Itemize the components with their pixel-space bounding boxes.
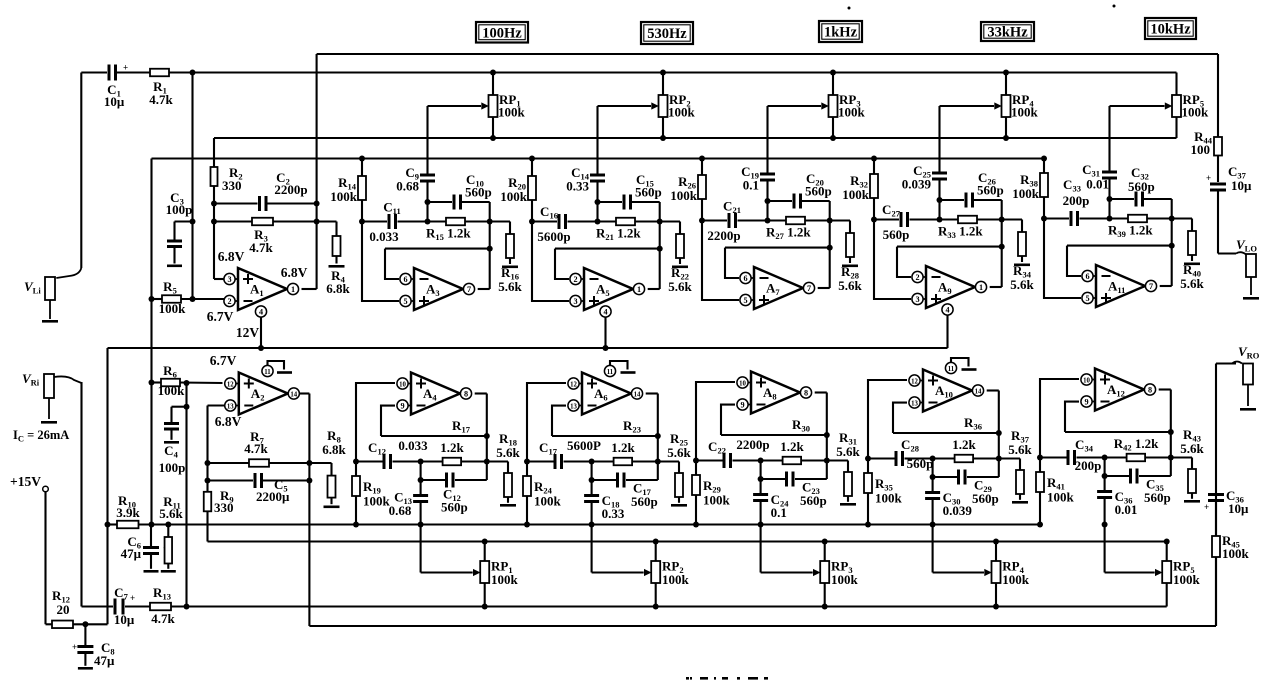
svg-text:100k: 100k (330, 189, 358, 204)
svg-text:C27: C27 (882, 202, 901, 219)
svg-text:47μ: 47μ (121, 546, 142, 561)
svg-text:A3: A3 (426, 282, 440, 299)
op-amp A9 (926, 266, 975, 308)
svg-text:5600p: 5600p (537, 229, 570, 244)
resistor R16 (509, 222, 511, 235)
wire output bus bottom (309, 625, 1216, 627)
svg-text:200p: 200p (1075, 458, 1102, 473)
capacitor C30 to wiper (932, 477, 934, 491)
wire wiper A6 (591, 525, 593, 573)
svg-text:VLi: VLi (24, 279, 41, 296)
svg-text:13: 13 (570, 403, 577, 410)
svg-text:R33 1.2k: R33 1.2k (938, 224, 983, 241)
svg-text:2: 2 (573, 275, 577, 284)
svg-text:12V: 12V (236, 325, 260, 340)
svg-text:R39 1.2k: R39 1.2k (1108, 223, 1153, 240)
resistor R45 (1215, 502, 1217, 536)
capacitor C37 (1210, 183, 1226, 186)
svg-text:3: 3 (573, 297, 577, 306)
svg-text:0.33: 0.33 (566, 179, 589, 194)
svg-text:0.039: 0.039 (943, 503, 973, 518)
ground VLO (1250, 277, 1252, 295)
svg-text:3: 3 (227, 275, 231, 284)
capacitor C10 (428, 201, 453, 203)
svg-text:100p: 100p (159, 460, 186, 475)
svg-text:10μ: 10μ (1228, 501, 1249, 516)
svg-text:A9: A9 (938, 280, 952, 297)
svg-text:12: 12 (911, 378, 918, 385)
svg-text:9: 9 (400, 401, 404, 410)
svg-text:A10: A10 (935, 383, 953, 400)
svg-text:VRO: VRO (1238, 344, 1260, 361)
resistor R3 (214, 220, 252, 222)
capacitor C16 (529, 219, 535, 225)
wire top bus drop (1217, 54, 1219, 137)
caption fragment (686, 677, 689, 680)
svg-text:C22: C22 (708, 439, 726, 456)
svg-text:6.8V: 6.8V (281, 265, 308, 280)
wire VRi lead (80, 382, 82, 607)
svg-text:1.2k: 1.2k (952, 437, 976, 452)
wire wiper A8 (760, 525, 762, 573)
svg-text:C33: C33 (1063, 177, 1081, 194)
svg-text:200p: 200p (1063, 193, 1090, 208)
svg-text:13: 13 (227, 403, 234, 410)
svg-text:100k: 100k (1047, 490, 1075, 505)
wire feedback A5 (555, 248, 660, 250)
svg-text:560p: 560p (465, 185, 492, 200)
svg-text:560p: 560p (800, 493, 827, 508)
capacitor C33 (1041, 216, 1047, 222)
svg-text:2200p: 2200p (736, 437, 769, 452)
capacitor C25 (932, 172, 947, 175)
svg-text:C4: C4 (164, 443, 178, 460)
svg-text:100k: 100k (1012, 186, 1040, 201)
wire input A12 (1040, 379, 1079, 458)
node sum A3 (425, 199, 431, 205)
wire input A6 (527, 383, 566, 462)
wire bottom bus riser (1215, 364, 1217, 627)
potentiometer RP1 bottom (484, 542, 486, 562)
capacitor C34 series (1037, 455, 1043, 461)
resistor R22 (679, 222, 681, 235)
resistor R28 (849, 221, 851, 234)
svg-text:560p: 560p (805, 184, 832, 199)
svg-text:6.8V: 6.8V (215, 414, 242, 429)
potentiometer RP5 top (1175, 73, 1177, 96)
capacitor C12 series (353, 459, 359, 465)
svg-text:R42 1.2k: R42 1.2k (1114, 436, 1159, 453)
capacitor C19 (760, 173, 775, 176)
svg-text:C12: C12 (368, 440, 386, 457)
potentiometer RP5 bottom (1166, 542, 1168, 562)
wire wiper A12 (1104, 525, 1106, 573)
wire input rail bottom (125, 605, 150, 607)
pin 4 A5 (600, 306, 611, 317)
svg-text:100k: 100k (363, 494, 391, 509)
svg-text:3: 3 (915, 295, 919, 304)
svg-text:5: 5 (1085, 294, 1089, 303)
capacitor C28 series (865, 456, 871, 462)
svg-text:1: 1 (979, 283, 983, 292)
svg-text:100k: 100k (500, 189, 528, 204)
op-amp A3 (414, 268, 463, 310)
potentiometer RP3 bottom (824, 542, 826, 562)
resistor R24 (526, 462, 528, 477)
resistor R33 (958, 216, 977, 224)
svg-text:100k: 100k (534, 494, 562, 509)
resistor R26 (701, 159, 703, 176)
svg-text:100k: 100k (831, 572, 859, 587)
wire to VLO (1218, 252, 1236, 254)
svg-text:100k: 100k (1173, 572, 1201, 587)
node N1 (190, 70, 196, 76)
wire A1 output (302, 288, 317, 290)
wire feedback A10 (893, 432, 999, 434)
potentiometer RP3 top (832, 73, 834, 96)
op-amp A12 (1095, 369, 1144, 411)
svg-text:5.6k: 5.6k (496, 445, 520, 460)
node VLi input wire (81, 71, 107, 73)
speck marks (848, 7, 851, 10)
wire output A9 (990, 286, 1002, 288)
svg-text:0.01: 0.01 (1115, 502, 1138, 517)
svg-text:5.6k: 5.6k (836, 444, 860, 459)
resistor R34 (1021, 220, 1023, 233)
capacitor C36 (1208, 493, 1224, 496)
svg-text:R36: R36 (964, 415, 982, 432)
svg-text:4: 4 (945, 305, 949, 314)
capacitor C1 (108, 65, 111, 81)
svg-text:C17: C17 (539, 440, 558, 457)
wire supply riser (106, 348, 108, 624)
capacitor C18 to wiper (591, 480, 593, 494)
resistor R9 (204, 492, 212, 512)
node sum A5 (595, 199, 601, 205)
svg-text:A12: A12 (1107, 382, 1125, 399)
capacitor C15 (598, 201, 623, 203)
resistor R21 (616, 218, 635, 226)
svg-text:20: 20 (57, 602, 70, 617)
wire output A6 (646, 392, 658, 394)
svg-text:10: 10 (739, 380, 746, 387)
svg-text:C11: C11 (383, 200, 400, 217)
svg-text:8: 8 (464, 389, 468, 398)
capacitor C24 to wiper (760, 479, 762, 493)
wire output bus top (317, 53, 1218, 55)
wire to pin3 (214, 278, 226, 280)
wire A2 feedback (208, 404, 225, 406)
resistor R43 (1191, 458, 1193, 470)
wire output A12 (1159, 388, 1171, 390)
wire (169, 71, 193, 73)
svg-text:100k: 100k (498, 105, 526, 120)
svg-text:11: 11 (948, 366, 955, 373)
wire output A5 (648, 288, 660, 290)
wire feedback A12 (1065, 431, 1171, 433)
wire (117, 71, 150, 73)
svg-text:R13: R13 (153, 585, 171, 602)
svg-text:R5: R5 (163, 279, 177, 296)
svg-text:7: 7 (807, 284, 811, 293)
svg-text:10kHz: 10kHz (1150, 22, 1191, 38)
svg-text:100k: 100k (703, 493, 731, 508)
svg-text:4.7k: 4.7k (149, 92, 173, 107)
svg-text:4.7k: 4.7k (244, 441, 268, 456)
resistor 1.2k A8 (783, 457, 802, 465)
pin 11 A2 (262, 365, 273, 376)
svg-text:0.33: 0.33 (602, 506, 625, 521)
pin 4 A9 (942, 304, 953, 315)
resistor R7 (208, 462, 250, 464)
svg-text:IC = 26mA: IC = 26mA (13, 428, 69, 444)
svg-text:100k: 100k (158, 383, 186, 398)
svg-text:5600P: 5600P (567, 438, 601, 453)
svg-text:10μ: 10μ (1231, 178, 1252, 193)
resistor R15 (446, 218, 465, 226)
capacitor C27 (871, 217, 877, 223)
svg-text:VRi: VRi (22, 371, 40, 388)
svg-text:6: 6 (1085, 272, 1089, 281)
capacitor C8 (84, 624, 86, 645)
pin 11 A6 (604, 365, 615, 376)
capacitor C21 (699, 218, 705, 224)
svg-text:560p: 560p (635, 185, 662, 200)
svg-text:10: 10 (1083, 377, 1090, 384)
svg-text:100k: 100k (1222, 546, 1250, 561)
wire output A11 (1160, 285, 1172, 287)
op-amp A5 (584, 268, 633, 310)
resistor R32 (873, 159, 875, 175)
capacitor C17 series (524, 459, 530, 465)
resistor R11 (165, 522, 171, 528)
wire input A11 (1044, 219, 1081, 299)
wire feedback A8 (721, 434, 827, 436)
capacitor C17 feedback (591, 462, 593, 481)
svg-text:560p: 560p (441, 500, 468, 515)
resistor R40 (1191, 219, 1193, 232)
svg-text:2200p: 2200p (274, 182, 307, 197)
svg-text:C21: C21 (723, 199, 741, 216)
svg-text:+: + (1206, 173, 1211, 183)
op-amp A8 (751, 372, 800, 414)
op-amp A7 (754, 267, 803, 309)
resistor R29 (695, 461, 697, 476)
capacitor C29 feedback (932, 459, 934, 478)
wire wiper drop band 4 (938, 106, 940, 172)
svg-text:100k: 100k (1011, 105, 1039, 120)
wire pot top rail bottom (208, 540, 1167, 542)
wire feedback A4 (381, 435, 487, 437)
resistor R5 (149, 296, 155, 302)
capacitor C13 to wiper (420, 480, 422, 494)
svg-text:6.7V: 6.7V (210, 353, 237, 368)
wire wiper A10 (932, 525, 934, 573)
svg-text:1.2k: 1.2k (440, 440, 464, 455)
resistor R1 (150, 69, 169, 77)
svg-text:R23: R23 (623, 418, 641, 435)
capacitor C23 feedback (760, 461, 762, 480)
resistor 1.2k A12 (1127, 454, 1146, 462)
svg-text:A11: A11 (1108, 279, 1125, 296)
resistor R2 (213, 138, 215, 167)
wire output A3 (478, 288, 490, 290)
resistor R18 (507, 462, 509, 474)
svg-text:560p: 560p (977, 183, 1004, 198)
resistor R39 (1128, 215, 1147, 223)
svg-text:R21 1.2k: R21 1.2k (596, 226, 641, 243)
jack VRi (44, 374, 54, 398)
wire VLi lead (80, 73, 82, 269)
wire wiper drop band 1 (426, 106, 428, 174)
resistor R6 (149, 380, 155, 386)
wire feedback A7 (725, 247, 830, 249)
svg-text:11: 11 (264, 369, 271, 376)
wire RP2 wiper (598, 105, 652, 107)
svg-text:1.2k: 1.2k (611, 440, 635, 455)
svg-text:+: + (123, 63, 128, 73)
resistor R38 (1043, 159, 1045, 174)
node sum A9 (937, 197, 943, 203)
svg-text:4.7k: 4.7k (151, 611, 175, 626)
svg-text:5.6k: 5.6k (668, 279, 692, 294)
wire output A8 (815, 391, 827, 393)
svg-text:0.68: 0.68 (396, 179, 419, 194)
resistor 1.2k A10 (955, 455, 974, 463)
resistor 1.2k A6 (614, 458, 633, 466)
capacitor C14 (590, 174, 605, 177)
svg-text:0.033: 0.033 (369, 229, 399, 244)
svg-text:14: 14 (634, 391, 641, 398)
capacitor C3 (190, 219, 196, 225)
jack VLO (1246, 254, 1256, 277)
svg-text:0.1: 0.1 (743, 178, 759, 193)
svg-text:12: 12 (227, 381, 234, 388)
capacitor C31 (1102, 171, 1117, 174)
svg-text:6.8k: 6.8k (322, 442, 346, 457)
capacitor C4 (184, 404, 190, 410)
capacitor C6 (150, 525, 152, 547)
capacitor C36 to wiper (1104, 476, 1106, 490)
resistor R12 (52, 621, 73, 629)
capacitor C32 (1110, 198, 1135, 200)
capacitor C7 (114, 599, 117, 615)
op-amp A10 (923, 370, 972, 412)
svg-text:14: 14 (975, 388, 982, 395)
svg-text:560p: 560p (972, 491, 999, 506)
label box 10kHz (1145, 18, 1196, 39)
svg-text:2200p: 2200p (707, 228, 740, 243)
svg-text:A2: A2 (251, 386, 265, 403)
svg-text:5.6k: 5.6k (159, 506, 183, 521)
svg-text:33kHz: 33kHz (987, 25, 1028, 41)
label box 530Hz (641, 22, 693, 44)
svg-text:100k: 100k (1182, 105, 1210, 120)
capacitor C35 feedback (1104, 458, 1106, 477)
svg-text:5: 5 (403, 297, 407, 306)
svg-text:5.6k: 5.6k (1010, 277, 1034, 292)
wire bias rail top (152, 157, 1045, 159)
resistor R37 (1019, 459, 1021, 471)
wire input A5 (532, 222, 569, 302)
capacitor C26 (940, 199, 965, 201)
wire bias vertical link (150, 159, 152, 525)
resistor R27 (786, 217, 805, 225)
capacitor C20 (768, 200, 793, 202)
svg-text:5.6k: 5.6k (838, 278, 862, 293)
resistor R19 (355, 462, 357, 477)
capacitor C5 (208, 479, 254, 481)
wire +15V (44, 492, 46, 624)
svg-text:6.7V: 6.7V (207, 309, 234, 324)
pin 11 A10 (945, 362, 956, 373)
label box 33kHz (981, 22, 1034, 41)
resistor R31 (847, 461, 849, 473)
svg-text:100p: 100p (166, 202, 193, 217)
svg-text:7: 7 (1149, 282, 1153, 291)
wire A2 output (300, 392, 310, 394)
svg-text:8: 8 (804, 388, 808, 397)
wire wiper drop band 2 (596, 106, 598, 174)
resistor R25 (678, 462, 680, 474)
wire bias rail bottom (108, 523, 118, 525)
svg-text:R30: R30 (792, 417, 810, 434)
svg-text:6.8k: 6.8k (326, 281, 350, 296)
svg-text:C34: C34 (1075, 437, 1094, 454)
wire input rail top (from R1 node) (193, 71, 1177, 73)
wire feedback A11 (1067, 245, 1172, 247)
svg-text:10μ: 10μ (114, 612, 135, 627)
svg-text:A8: A8 (763, 385, 777, 402)
capacitor C9 (420, 174, 435, 177)
ground VRi (48, 398, 50, 419)
wire output A10 (987, 389, 999, 391)
svg-text:5.6k: 5.6k (1180, 441, 1204, 456)
resistor R14 (361, 159, 363, 177)
svg-text:5.6k: 5.6k (1180, 276, 1204, 291)
svg-text:R27 1.2k: R27 1.2k (766, 225, 811, 242)
svg-text:C7: C7 (114, 585, 128, 602)
resistor R8 (330, 463, 332, 476)
jack VLi (45, 277, 55, 300)
wire pot bottom rail top (214, 137, 1177, 139)
op-amp A4 (411, 373, 460, 415)
svg-text:5.6k: 5.6k (498, 279, 522, 294)
capacitor C2 (214, 202, 258, 204)
svg-text:A5: A5 (596, 282, 610, 299)
svg-text:13: 13 (911, 400, 918, 407)
svg-text:A7: A7 (766, 281, 780, 298)
wire input A8 (696, 382, 735, 461)
svg-text:5.6k: 5.6k (1008, 442, 1032, 457)
svg-text:R17: R17 (452, 418, 471, 435)
potentiometer RP2 top (662, 73, 664, 96)
node N2 (184, 604, 190, 610)
svg-text:3.9k: 3.9k (116, 505, 140, 520)
svg-text:10: 10 (399, 381, 406, 388)
svg-text:4.7k: 4.7k (249, 240, 273, 255)
svg-text:4: 4 (259, 307, 263, 316)
svg-text:9: 9 (740, 400, 744, 409)
wire input A4 (356, 383, 395, 462)
svg-text:560p: 560p (1128, 179, 1155, 194)
resistor R10 (117, 521, 139, 529)
svg-text:5.6k: 5.6k (667, 445, 691, 460)
svg-text:1kHz: 1kHz (824, 25, 858, 41)
resistor R20 (531, 159, 533, 177)
wire wiper A4 (420, 525, 422, 573)
svg-text:560p: 560p (631, 494, 658, 509)
